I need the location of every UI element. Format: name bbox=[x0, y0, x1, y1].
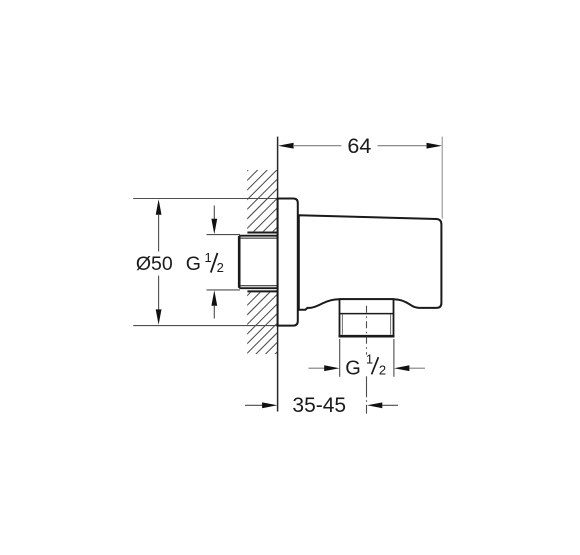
dimension 64: dimension line with arrows bbox=[278, 134, 442, 158]
outlet spigot G1/2 bbox=[339, 299, 395, 336]
wall hatching upper bbox=[58, 160, 498, 360]
dimension 35-45: arrows bbox=[245, 402, 398, 408]
fitting body outline bbox=[299, 215, 442, 310]
dimension O50: dimension line with arrows bbox=[156, 199, 162, 325]
label O50 G1/2 bbox=[136, 250, 224, 275]
label G1/2 bottom bbox=[345, 351, 386, 379]
dimension 64: extension line right bbox=[441, 137, 443, 219]
svg-text:64: 64 bbox=[347, 134, 371, 158]
wall face line bbox=[277, 137, 279, 412]
svg-text:Ø50: Ø50 bbox=[136, 253, 173, 275]
wall hole lower edge bbox=[247, 290, 278, 292]
svg-text:G: G bbox=[186, 253, 201, 275]
svg-text:35-45: 35-45 bbox=[292, 394, 346, 417]
dimension G1/2 bottom: arrows bbox=[309, 365, 426, 371]
socket OD extension lines bbox=[207, 234, 241, 236]
svg-text:G: G bbox=[345, 357, 361, 379]
escutcheon plate (O50 flange) bbox=[278, 199, 298, 326]
dimension G1/2 bottom: extension lines bbox=[339, 339, 341, 377]
centerline of spigot bbox=[366, 306, 368, 414]
svg-text:2: 2 bbox=[379, 362, 386, 377]
body bottom junction line above spigot bbox=[340, 298, 394, 300]
svg-text:1: 1 bbox=[205, 250, 212, 265]
wall hole upper edge bbox=[247, 232, 278, 234]
dimension O50: extension lines bbox=[133, 198, 296, 200]
svg-text:2: 2 bbox=[217, 260, 224, 275]
threaded inlet socket G1/2 bbox=[239, 236, 277, 289]
wall hatching lower bbox=[58, 160, 498, 360]
socket OD arrows bbox=[211, 206, 217, 319]
svg-text:1: 1 bbox=[366, 351, 373, 366]
